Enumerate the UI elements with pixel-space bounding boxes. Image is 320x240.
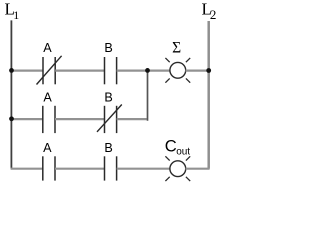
wire rung1 B to lamp — [117, 69, 171, 71]
svg-text:2: 2 — [210, 7, 217, 22]
svg-text:B: B — [104, 90, 112, 104]
contact B rung2 (normally closed) — [97, 105, 122, 134]
wire rung3 A-B segment — [55, 168, 105, 170]
junction dot right rail / rung1 — [206, 68, 211, 73]
svg-text:1: 1 — [13, 8, 19, 22]
contact A rung2 (normally open) — [43, 106, 55, 133]
wire lamp to right rail rung1 — [186, 69, 210, 71]
wire lamp to right rail rung3 — [186, 168, 210, 170]
wire rung1 left segment — [11, 69, 43, 71]
output coil Sigma (lamp) — [165, 58, 190, 83]
svg-text:Σ: Σ — [172, 40, 181, 57]
junction dot left rail / rung1 — [9, 68, 14, 73]
svg-text:C: C — [165, 137, 177, 156]
svg-text:B: B — [104, 41, 112, 55]
contact B rung1 (normally open) — [105, 57, 117, 84]
wire riser rung2 up to rung1 — [146, 71, 149, 120]
svg-text:A: A — [43, 41, 52, 55]
junction dot rung1 / riser from rung2 — [145, 68, 150, 73]
wire rung2 B to riser — [117, 118, 147, 120]
output coil Cout (lamp) — [165, 156, 190, 181]
wire rung3 left segment (corner from left rail) — [11, 168, 43, 170]
label Cout — [165, 137, 191, 158]
label L1 — [5, 0, 20, 22]
left rail L1 — [10, 20, 12, 168]
wire rung2 A-B segment — [55, 118, 105, 120]
contact A rung3 (normally open) — [43, 156, 55, 180]
contact A rung1 (normally closed) — [37, 56, 62, 85]
svg-text:A: A — [43, 141, 52, 155]
junction dot left rail / rung2 — [9, 116, 14, 121]
wire rung2 left segment — [11, 118, 43, 120]
contact B rung3 (normally open) — [105, 156, 117, 180]
wire rung3 B to lamp — [117, 168, 171, 170]
wire rung1 A-B segment — [55, 69, 104, 71]
svg-text:out: out — [176, 147, 190, 158]
label L2 — [202, 0, 217, 22]
svg-text:A: A — [43, 90, 52, 104]
right rail L2 — [207, 21, 210, 169]
svg-text:B: B — [104, 141, 112, 155]
